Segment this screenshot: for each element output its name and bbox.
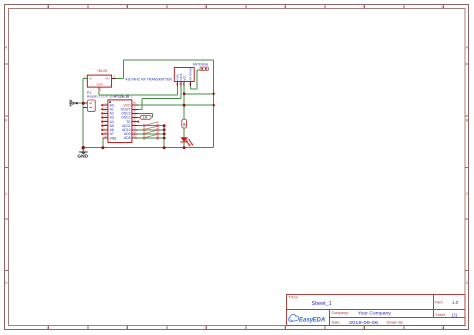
svg-text:5: 5 <box>205 326 207 330</box>
svg-text:5: 5 <box>205 5 207 9</box>
svg-text:11: 11 <box>441 5 445 9</box>
svg-text:D: D <box>466 281 469 285</box>
svg-text:2019-09-06: 2019-09-06 <box>349 320 379 325</box>
svg-text:Your Company: Your Company <box>358 311 392 316</box>
svg-text:AD8: AD8 <box>124 136 131 140</box>
svg-text:Easy: Easy <box>299 318 314 324</box>
svg-text:-1: -1 <box>130 95 133 99</box>
svg-text:1: 1 <box>47 5 49 9</box>
svg-text:1K: 1K <box>183 122 187 127</box>
svg-text:GND: GND <box>77 154 88 159</box>
svg-text:ANTENNA: ANTENNA <box>189 67 193 80</box>
svg-text:Company:: Company: <box>332 311 349 315</box>
svg-text:EDA: EDA <box>313 318 326 324</box>
svg-text:C: C <box>5 192 8 196</box>
svg-text:1: 1 <box>47 326 49 330</box>
svg-text:VCC: VCC <box>182 75 186 81</box>
svg-text:7: 7 <box>284 5 286 9</box>
svg-text:TITLE:: TITLE: <box>289 295 299 299</box>
svg-text:3: 3 <box>126 5 128 9</box>
svg-text:Sheet:: Sheet: <box>435 313 445 317</box>
svg-text:1/1: 1/1 <box>452 312 458 317</box>
svg-text:VO: VO <box>105 77 110 81</box>
svg-text:11: 11 <box>441 326 445 330</box>
svg-text:7: 7 <box>284 326 286 330</box>
svg-text:GND: GND <box>97 83 103 87</box>
svg-text:VI: VI <box>89 77 92 81</box>
svg-text:Date:: Date: <box>332 321 341 325</box>
svg-text:C: C <box>466 192 469 196</box>
svg-text:Drawn By:: Drawn By: <box>387 321 405 325</box>
svg-text:HT12E-18: HT12E-18 <box>114 95 130 99</box>
svg-text:REV:: REV: <box>435 301 443 305</box>
svg-text:3: 3 <box>126 326 128 330</box>
svg-text:Header 1: Header 1 <box>87 95 101 99</box>
svg-text:D: D <box>5 281 8 285</box>
svg-text:1.0: 1.0 <box>452 300 459 305</box>
svg-text:ANTENNA: ANTENNA <box>193 63 209 67</box>
svg-text:U1 HT12E: U1 HT12E <box>102 95 114 99</box>
svg-text:78L05: 78L05 <box>97 69 107 73</box>
svg-text:9: 9 <box>363 5 365 9</box>
svg-text:Sheet_1: Sheet_1 <box>312 301 332 307</box>
svg-text:+5V: +5V <box>68 99 73 107</box>
svg-text:9: 9 <box>363 326 365 330</box>
svg-text:VSS: VSS <box>110 136 118 140</box>
svg-text:430 MHZ RF TRANSMITTER: 430 MHZ RF TRANSMITTER <box>126 78 173 82</box>
svg-text:1M: 1M <box>143 116 148 120</box>
